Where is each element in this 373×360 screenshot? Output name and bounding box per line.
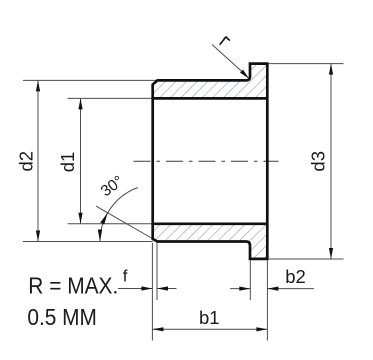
b2 extension line right / b1 right [266,260,268,340]
f extension line left [151,243,153,341]
f leader line [118,288,152,290]
arrow angle upper [100,213,107,225]
svg-text:d2: d2 [16,151,37,172]
svg-text:b2: b2 [285,266,306,287]
hatched upper wall cross-section [153,64,268,99]
bore top line [152,97,268,100]
arrow d1 bottom [78,213,82,224]
dimension line d2 [37,80,39,241]
svg-text:d3: d3 [308,151,329,172]
arrow d2 top [36,80,40,91]
arrow b2 right [267,287,278,291]
arrow f left [141,286,152,290]
leader r [212,45,242,72]
extension line d3 top [269,63,344,65]
arrow d2 bottom [36,231,40,242]
arrow f right [157,286,168,290]
extension line d3 bottom [269,258,344,260]
b2 extension line left [249,260,251,300]
arrow d3 bottom [329,248,333,259]
extension line d2 bottom [23,241,153,243]
extension line d1 bottom [68,223,153,225]
arrow b1 right [256,327,267,331]
part outline [153,64,268,259]
hatched lower wall cross-section [153,224,268,259]
arrow d1 top [78,98,82,109]
arrow r leader [240,70,249,79]
svg-text:0.5 MM: 0.5 MM [27,304,97,330]
svg-text:f: f [123,267,128,286]
arrow b1 left [152,327,163,331]
f right arrow [157,288,177,290]
bore bottom line [152,222,268,225]
dimension line d3 [330,64,332,259]
svg-text:b1: b1 [199,307,220,328]
arrow angle bottom [98,230,102,242]
label r [220,37,229,44]
dimension line d1 [80,98,82,223]
centerline [134,160,279,162]
b2 dimension right tail [267,288,314,290]
b2 dimension left tail [230,288,250,290]
svg-text:R = MAX.: R = MAX. [28,273,118,299]
extension line d2 top [23,79,157,81]
b1 dimension line [152,328,267,330]
chamfer construction line 30deg [96,206,158,241]
svg-text:d1: d1 [57,152,78,173]
extension line d1 top [68,97,153,99]
f extension line right [156,243,158,300]
arrow b2 left [239,287,250,291]
angle dimension arc [100,188,138,242]
arrow d3 top [329,64,333,75]
